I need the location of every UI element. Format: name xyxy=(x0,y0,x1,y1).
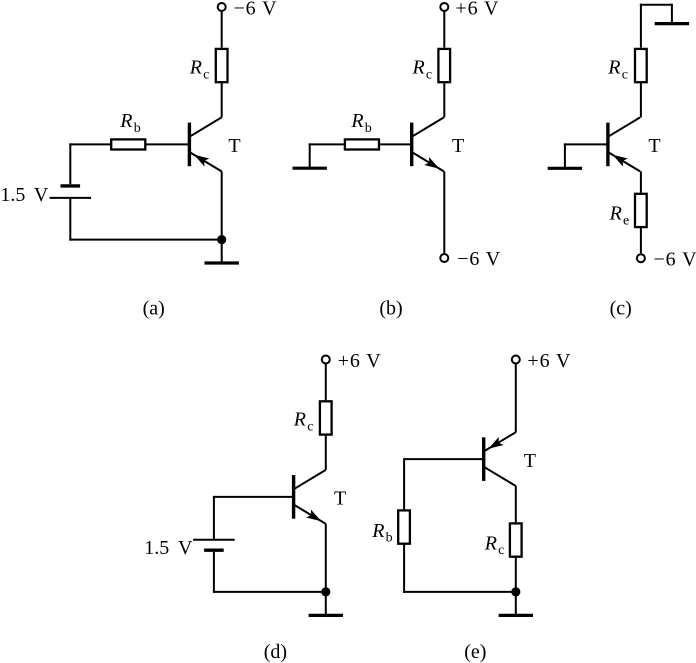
svg-text:c: c xyxy=(426,67,432,82)
svg-text:R: R xyxy=(119,110,132,132)
svg-text:(b): (b) xyxy=(379,298,402,320)
svg-text:1.5: 1.5 xyxy=(0,184,25,206)
svg-text:+6 V: +6 V xyxy=(338,350,382,372)
svg-text:T: T xyxy=(524,450,536,472)
svg-text:c: c xyxy=(203,67,209,82)
svg-text:b: b xyxy=(386,531,393,546)
svg-text:R: R xyxy=(609,203,622,225)
svg-text:c: c xyxy=(622,67,628,82)
svg-text:R: R xyxy=(189,57,202,79)
svg-text:T: T xyxy=(648,135,660,157)
svg-text:(c): (c) xyxy=(610,298,632,320)
svg-text:−6 V: −6 V xyxy=(234,0,278,19)
svg-text:T: T xyxy=(228,135,240,157)
svg-text:R: R xyxy=(484,532,497,554)
svg-text:1.5: 1.5 xyxy=(144,537,169,559)
svg-text:c: c xyxy=(307,420,313,435)
svg-text:V: V xyxy=(178,537,193,559)
svg-text:+6 V: +6 V xyxy=(527,350,571,372)
svg-text:e: e xyxy=(623,214,629,229)
svg-text:(a): (a) xyxy=(143,298,165,320)
svg-text:b: b xyxy=(365,121,372,136)
svg-text:−6 V: −6 V xyxy=(654,248,696,270)
svg-text:(d): (d) xyxy=(264,641,287,663)
svg-text:V: V xyxy=(34,184,49,206)
svg-text:−6 V: −6 V xyxy=(457,248,501,270)
svg-text:R: R xyxy=(371,520,384,542)
svg-text:b: b xyxy=(134,121,141,136)
svg-text:(e): (e) xyxy=(464,641,486,663)
svg-text:R: R xyxy=(412,57,425,79)
svg-text:R: R xyxy=(350,110,363,132)
svg-text:R: R xyxy=(607,57,620,79)
svg-text:+6 V: +6 V xyxy=(455,0,499,19)
svg-text:T: T xyxy=(334,487,346,509)
svg-text:R: R xyxy=(293,409,306,431)
svg-text:c: c xyxy=(498,543,504,558)
svg-text:T: T xyxy=(452,135,464,157)
